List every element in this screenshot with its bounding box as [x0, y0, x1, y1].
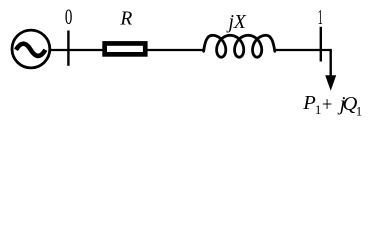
svg-text:R: R	[119, 9, 132, 30]
ac source G1 sine wave	[16, 44, 45, 56]
load arrow stem	[330, 49, 332, 77]
bus 1 bar	[320, 27, 322, 62]
svg-text:jX: jX	[226, 12, 247, 33]
svg-text:+: +	[322, 92, 332, 116]
bus 0 bar	[67, 31, 69, 66]
ac source G1 circle	[12, 30, 50, 68]
svg-text:0: 0	[65, 5, 73, 29]
wire bus 1 to load stub	[321, 49, 331, 51]
svg-text:P: P	[302, 92, 316, 114]
resistor R body	[102, 41, 147, 57]
wire source to resistor	[50, 49, 103, 51]
svg-text:1: 1	[356, 103, 363, 118]
wire inductor to bus 1	[274, 49, 322, 51]
wire resistor to inductor	[147, 49, 205, 51]
load arrowhead	[325, 75, 336, 91]
svg-text:1: 1	[318, 5, 323, 29]
svg-text:1: 1	[315, 102, 322, 117]
inductor jX coil	[204, 35, 275, 57]
